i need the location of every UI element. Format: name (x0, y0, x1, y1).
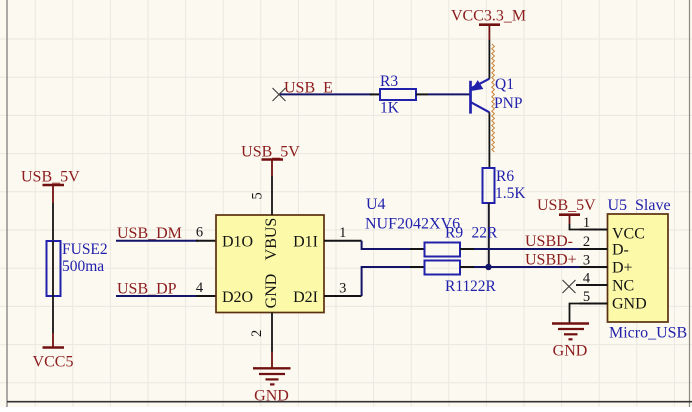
wire (R9 to U5 D-) (474, 248, 580, 250)
pin 4 of U5 (576, 271, 608, 287)
svg-text:USBD+: USBD+ (525, 251, 577, 268)
power ground GND (right) (552, 324, 589, 360)
transistor Q1 PNP (471, 76, 523, 114)
svg-text:1.5K: 1.5K (495, 185, 526, 202)
svg-text:USBD-: USBD- (525, 233, 573, 250)
svg-text:U5: U5 (608, 197, 628, 214)
pin 1 of U4 (324, 225, 362, 241)
svg-text:D2I: D2I (293, 289, 318, 306)
wire (U4 pin1 to R9) (362, 241, 412, 249)
resistor R11 22R (410, 261, 497, 296)
power port USB_5V (above U4) (241, 144, 300, 177)
wire (R6 to junction) (488, 203, 490, 267)
junction (485, 264, 491, 270)
svg-text:VCC3.3_M: VCC3.3_M (451, 7, 526, 24)
svg-text:USB_DP: USB_DP (117, 280, 177, 297)
svg-text:4: 4 (196, 280, 204, 296)
wire (116, 240, 198, 242)
svg-text:3: 3 (339, 280, 346, 296)
svg-text:6: 6 (196, 225, 203, 241)
svg-text:GND: GND (254, 388, 289, 405)
svg-text:VBUS: VBUS (263, 218, 280, 261)
power port USB_5V (at U5) (537, 197, 596, 224)
wire (280, 93, 372, 95)
svg-text:D1O: D1O (222, 234, 253, 251)
svg-text:U4: U4 (366, 196, 386, 213)
wire (U4 pin3 to R11) (362, 267, 412, 296)
svg-text:1: 1 (583, 215, 590, 231)
resistor R3 1K (370, 73, 428, 117)
resistor R9 22R (410, 225, 498, 257)
svg-text:Q1: Q1 (495, 76, 514, 93)
pin 4 of U4 (196, 280, 216, 296)
wire (collector to R6) (488, 112, 490, 168)
svg-text:USB_5V: USB_5V (537, 197, 596, 214)
no-ERC cross on NC pin (563, 280, 576, 293)
svg-text:D2O: D2O (222, 289, 253, 306)
pin 2 of U4 (249, 313, 272, 353)
svg-text:GND: GND (553, 343, 588, 360)
power port VCC5 (33, 333, 74, 371)
IC U4 NUF2042XV6 body (216, 215, 324, 313)
svg-text:FUSE2: FUSE2 (62, 241, 108, 258)
wire (52, 203, 54, 241)
resistor R6 1.5K (483, 168, 527, 203)
svg-text:VCC: VCC (612, 226, 645, 243)
svg-text:R11: R11 (445, 278, 470, 295)
power port USB_5V (left) (21, 169, 80, 204)
pin 3 of U5 (580, 252, 608, 268)
svg-text:1K: 1K (380, 100, 400, 117)
svg-text:R3: R3 (380, 73, 398, 90)
svg-text:USB_5V: USB_5V (241, 144, 300, 161)
pin 5 of U5 (580, 289, 608, 305)
no-ERC cross on USB_E (273, 88, 286, 101)
svg-text:D1I: D1I (293, 234, 318, 251)
svg-text:5: 5 (583, 289, 590, 305)
wire (USB_5V to U5 pin1) (570, 224, 580, 230)
svg-text:3: 3 (583, 252, 590, 268)
svg-text:22R: 22R (472, 225, 499, 242)
svg-text:1: 1 (339, 225, 346, 241)
svg-text:GND: GND (612, 296, 647, 313)
power ground GND (below U4) (253, 352, 291, 405)
svg-text:D+: D+ (612, 260, 633, 277)
svg-text:R9: R9 (445, 225, 463, 242)
wire (R11 to U5 D+) (474, 266, 580, 268)
pin 2 of U5 (580, 234, 608, 250)
svg-text:Micro_USB: Micro_USB (609, 325, 687, 342)
svg-text:4: 4 (583, 271, 591, 287)
fuse FUSE2 500ma (47, 241, 108, 296)
svg-text:2: 2 (249, 330, 265, 337)
wire (U5 pin5 to GND) (570, 304, 580, 323)
pin 5 of U4 (250, 176, 273, 215)
svg-text:GND: GND (263, 274, 280, 309)
wire (emitter to VCC3.3_M) (488, 40, 490, 79)
svg-text:5: 5 (250, 192, 266, 199)
connector U5 Micro_USB body (608, 214, 669, 322)
pin 6 of U4 (196, 225, 216, 241)
svg-text:22R: 22R (470, 278, 497, 295)
wire (52, 296, 54, 333)
svg-text:Slave: Slave (635, 197, 671, 214)
ERC marker zigzag (492, 44, 495, 152)
power port VCC3.3_M (451, 7, 526, 40)
svg-text:500ma: 500ma (62, 258, 104, 275)
svg-text:R6: R6 (496, 168, 514, 185)
svg-text:VCC5: VCC5 (33, 354, 74, 371)
svg-text:D-: D- (612, 242, 629, 259)
svg-text:NC: NC (612, 278, 634, 295)
pin 1 of U5 (580, 215, 608, 231)
svg-text:USB_DM: USB_DM (117, 225, 182, 242)
pin 3 of U4 (324, 280, 362, 296)
svg-text:2: 2 (583, 234, 590, 250)
wire (428, 93, 470, 95)
svg-text:USB_5V: USB_5V (21, 169, 80, 186)
wire (116, 295, 198, 297)
svg-text:PNP: PNP (494, 95, 522, 112)
